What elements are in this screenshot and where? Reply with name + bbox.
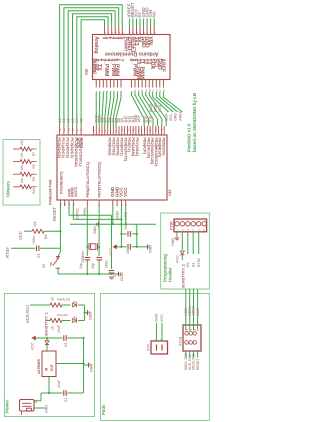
svg-text:2: 2 bbox=[100, 90, 102, 92]
svg-text:10uF: 10uF bbox=[57, 380, 61, 388]
svg-text:Header: Header bbox=[168, 267, 173, 282]
svg-text:GND: GND bbox=[89, 312, 93, 320]
svg-text:R9: R9 bbox=[32, 177, 36, 181]
svg-text:U$2: U$2 bbox=[85, 69, 89, 75]
svg-text:PB3(MOSI/OC2): PB3(MOSI/OC2) bbox=[154, 138, 158, 167]
svg-text:PB6(XTAL1/TOSC1): PB6(XTAL1/TOSC1) bbox=[86, 161, 90, 197]
svg-text:16MHz: 16MHz bbox=[81, 251, 85, 263]
svg-text:13: 13 bbox=[146, 89, 148, 92]
svg-text:VCC: VCC bbox=[160, 314, 164, 322]
svg-text:D1: D1 bbox=[192, 262, 196, 267]
svg-text:15: 15 bbox=[153, 89, 155, 92]
svg-text:PB4(MISO): PB4(MISO) bbox=[158, 138, 162, 158]
svg-text:10k: 10k bbox=[20, 165, 24, 171]
svg-text:C7: C7 bbox=[113, 273, 117, 277]
svg-text:GND: GND bbox=[45, 405, 49, 413]
svg-text:R7: R7 bbox=[32, 152, 36, 156]
svg-text:C3: C3 bbox=[37, 254, 41, 258]
svg-text:2: 2 bbox=[182, 229, 184, 231]
svg-text:C1: C1 bbox=[64, 398, 68, 402]
svg-text:SCK-D13: SCK-D13 bbox=[25, 304, 30, 323]
svg-text:PC3(ADC3): PC3(ADC3) bbox=[70, 138, 74, 159]
svg-text:GND: GND bbox=[149, 245, 153, 253]
svg-text:PD1(TXD): PD1(TXD) bbox=[112, 138, 116, 156]
svg-text:8: 8 bbox=[121, 90, 123, 92]
svg-text:RTS#: RTS# bbox=[197, 258, 201, 267]
svg-text:MISO: MISO bbox=[154, 103, 158, 112]
svg-text:10k: 10k bbox=[20, 178, 24, 184]
svg-text:10k: 10k bbox=[33, 221, 37, 227]
svg-text:NC: NC bbox=[151, 10, 156, 17]
svg-text:GND: GND bbox=[155, 313, 159, 322]
svg-text:16: 16 bbox=[156, 89, 158, 92]
svg-text:AREF: AREF bbox=[178, 110, 182, 121]
svg-text:4: 4 bbox=[106, 90, 109, 92]
svg-text:PB7(XTAL2/TOSC2): PB7(XTAL2/TOSC2) bbox=[98, 161, 102, 197]
svg-text:MOSI: MOSI bbox=[149, 103, 153, 112]
svg-text:uA78M05: uA78M05 bbox=[37, 359, 41, 374]
svg-text:5: 5 bbox=[199, 229, 201, 231]
svg-text:IN: IN bbox=[45, 367, 49, 371]
svg-text:CMears: CMears bbox=[6, 181, 11, 197]
svg-text:5: 5 bbox=[191, 328, 193, 330]
svg-text:VCC: VCC bbox=[109, 247, 113, 255]
svg-text:PD5(T1): PD5(T1) bbox=[127, 138, 131, 153]
svg-text:100n: 100n bbox=[32, 236, 36, 244]
svg-text:PD0(RXD): PD0(RXD) bbox=[108, 138, 112, 157]
svg-text:7: 7 bbox=[118, 90, 120, 92]
svg-text:PB6: PB6 bbox=[83, 208, 87, 215]
svg-text:D12: D12 bbox=[148, 116, 152, 123]
svg-text:SCL: SCL bbox=[169, 113, 173, 121]
svg-text:XT4: XT4 bbox=[147, 344, 151, 351]
svg-text:ADC6: ADC6 bbox=[76, 138, 80, 148]
svg-text:1k: 1k bbox=[51, 297, 55, 301]
svg-text:GND: GND bbox=[90, 364, 94, 372]
svg-text:5: 5 bbox=[111, 90, 113, 92]
svg-text:10uF: 10uF bbox=[57, 325, 61, 333]
svg-text:AVCC: AVCC bbox=[74, 208, 79, 219]
svg-text:PC0(ADC0): PC0(ADC0) bbox=[57, 138, 61, 159]
svg-text:14: 14 bbox=[148, 89, 151, 92]
svg-text:3: 3 bbox=[188, 229, 190, 231]
svg-text:PC6/RESET): PC6/RESET) bbox=[60, 171, 64, 194]
svg-text:18: 18 bbox=[164, 89, 166, 92]
svg-text:R6: R6 bbox=[44, 235, 48, 239]
svg-text:PD4(XCK/T0): PD4(XCK/T0) bbox=[123, 138, 127, 162]
svg-text:7: 7 bbox=[117, 59, 123, 62]
svg-text:SCHOTTKY_2: SCHOTTKY_2 bbox=[182, 264, 186, 288]
svg-text:GND: GND bbox=[174, 113, 178, 121]
svg-text:R10: R10 bbox=[32, 188, 36, 194]
svg-text:Arduino Duemilanove: Arduino Duemilanove bbox=[105, 51, 159, 57]
svg-text:ARF: ARF bbox=[137, 114, 141, 122]
svg-text:based on SMADUINO by LB: based on SMADUINO by LB bbox=[192, 92, 197, 152]
svg-text:SDA: SDA bbox=[165, 113, 169, 121]
svg-text:9: 9 bbox=[132, 90, 134, 92]
svg-text:PB1(OC1A): PB1(OC1A) bbox=[146, 138, 150, 159]
svg-text:U$1: U$1 bbox=[168, 189, 172, 196]
svg-text:D0: D0 bbox=[186, 262, 190, 267]
svg-text:OUT: OUT bbox=[50, 364, 54, 371]
svg-text:PC2(ADC2): PC2(ADC2) bbox=[66, 138, 70, 159]
svg-text:18p: 18p bbox=[79, 263, 83, 269]
svg-text:GND: GND bbox=[93, 226, 97, 234]
svg-text:RESET: RESET bbox=[196, 358, 200, 370]
svg-text:4: 4 bbox=[120, 204, 123, 206]
svg-text:GND: GND bbox=[115, 211, 120, 220]
svg-text:J1: J1 bbox=[34, 400, 38, 404]
svg-text:VCC: VCC bbox=[18, 231, 23, 240]
svg-text:VCC: VCC bbox=[31, 342, 35, 350]
svg-text:10k: 10k bbox=[20, 140, 24, 146]
svg-text:RTS#: RTS# bbox=[5, 247, 10, 258]
svg-text:Power: Power bbox=[5, 400, 10, 413]
svg-text:1: 1 bbox=[96, 90, 98, 92]
svg-text:PC1(ADC1): PC1(ADC1) bbox=[61, 138, 65, 159]
svg-text:17: 17 bbox=[160, 89, 162, 92]
svg-text:VIN: VIN bbox=[147, 37, 153, 46]
svg-text:PwrDNO v1.0: PwrDNO v1.0 bbox=[187, 123, 192, 152]
svg-text:10: 10 bbox=[135, 89, 137, 92]
svg-text:VCC: VCC bbox=[123, 187, 128, 197]
svg-text:ATMEGA8-THIN: ATMEGA8-THIN bbox=[49, 179, 53, 205]
svg-text:C9: C9 bbox=[126, 250, 130, 254]
svg-text:GND: GND bbox=[171, 238, 175, 246]
svg-text:Pads: Pads bbox=[101, 404, 106, 415]
svg-text:PB0(ICP): PB0(ICP) bbox=[143, 138, 147, 155]
svg-text:R8: R8 bbox=[32, 164, 36, 168]
svg-text:1: 1 bbox=[177, 229, 179, 231]
svg-text:PB2(SS/OC1B): PB2(SS/OC1B) bbox=[150, 138, 154, 165]
svg-text:XT1B: XT1B bbox=[179, 336, 183, 346]
svg-text:24: 24 bbox=[63, 128, 66, 131]
svg-text:VCC: VCC bbox=[176, 255, 180, 263]
svg-text:A5: A5 bbox=[79, 118, 83, 123]
svg-text:GND: GND bbox=[196, 308, 200, 316]
svg-text:3: 3 bbox=[103, 90, 105, 92]
svg-text:100n: 100n bbox=[105, 260, 109, 268]
svg-text:PWRLED: PWRLED bbox=[57, 298, 71, 302]
svg-text:PD6(AIN0): PD6(AIN0) bbox=[131, 138, 135, 157]
svg-text:FTDI: FTDI bbox=[170, 222, 174, 230]
svg-text:ADC7: ADC7 bbox=[80, 138, 84, 148]
svg-text:S1: S1 bbox=[42, 264, 46, 268]
svg-text:SCK: SCK bbox=[158, 104, 162, 112]
svg-text:C2: C2 bbox=[64, 343, 68, 347]
svg-text:AVCC: AVCC bbox=[74, 186, 78, 197]
svg-text:GND: GND bbox=[119, 272, 124, 281]
svg-text:18p: 18p bbox=[91, 263, 95, 269]
svg-text:SCHOTTKY_1: SCHOTTKY_1 bbox=[45, 312, 49, 336]
svg-text:1k: 1k bbox=[51, 326, 55, 330]
svg-text:11: 11 bbox=[139, 89, 141, 92]
svg-text:4: 4 bbox=[192, 229, 195, 231]
svg-text:6: 6 bbox=[195, 328, 197, 330]
svg-text:RESET: RESET bbox=[52, 207, 57, 221]
svg-text:6: 6 bbox=[204, 229, 206, 231]
svg-text:AREF: AREF bbox=[160, 59, 166, 73]
svg-text:10k: 10k bbox=[20, 153, 24, 159]
svg-text:12: 12 bbox=[142, 89, 144, 92]
svg-text:PB5(SCK): PB5(SCK) bbox=[161, 138, 165, 157]
svg-text:Analog: Analog bbox=[93, 37, 99, 54]
svg-text:PD3(INT1): PD3(INT1) bbox=[119, 138, 123, 157]
svg-text:6: 6 bbox=[114, 90, 116, 92]
svg-text:PD2(INT0): PD2(INT0) bbox=[116, 138, 120, 157]
svg-text:PinLED: PinLED bbox=[57, 313, 69, 317]
svg-text:PD7(AIN1): PD7(AIN1) bbox=[135, 138, 139, 157]
